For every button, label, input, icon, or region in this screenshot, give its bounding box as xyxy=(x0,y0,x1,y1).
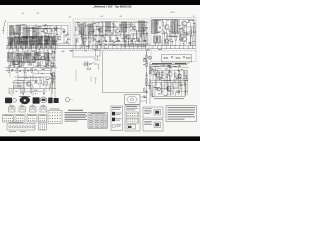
IF transformer T6 xyxy=(17,54,22,62)
resistor R36 xyxy=(180,37,182,41)
resistor R41 xyxy=(153,72,155,76)
transistor V17 xyxy=(178,74,182,78)
tuning capacitor pictorial xyxy=(40,97,47,103)
resistor R3 xyxy=(28,40,30,44)
svg-text:+U Z: +U Z xyxy=(119,16,122,18)
wire clutter mid board extra xyxy=(77,22,147,46)
resistor R9 xyxy=(21,62,23,66)
capacitor C16 xyxy=(149,67,151,68)
contact grid box xyxy=(48,109,62,124)
capacitor C19 xyxy=(145,91,147,92)
capacitor C7 xyxy=(48,60,50,61)
capacitor C6 xyxy=(30,64,32,65)
resistor R26 xyxy=(143,37,145,41)
transistor V14 xyxy=(164,39,168,44)
wire supply rail A xyxy=(6,45,196,47)
caption under connector strip xyxy=(9,130,26,133)
wire void bottom edge xyxy=(103,92,149,94)
resistor R22 xyxy=(123,38,125,42)
value labels FM box xyxy=(11,24,71,45)
pin assignment table X5 xyxy=(3,115,14,123)
AM coil pack L6 xyxy=(44,37,49,45)
wire left rail y77 xyxy=(14,76,56,78)
AM coil pack L3 xyxy=(9,37,14,45)
transistor V2 xyxy=(57,36,61,40)
capacitor C28 xyxy=(180,88,182,89)
resistor R13 xyxy=(76,27,78,31)
loudspeaker LS1 xyxy=(125,95,141,104)
resistor R29 xyxy=(149,70,151,74)
capacitor C32 xyxy=(35,81,37,82)
column parts x51 xyxy=(51,70,53,88)
connector socket X3 xyxy=(30,106,37,112)
capacitor C5 xyxy=(17,63,19,64)
IF transformer T12 xyxy=(139,21,145,32)
resistor R11 xyxy=(38,62,40,66)
resistor R45 xyxy=(184,72,186,76)
main board module outline xyxy=(73,19,149,50)
AM coil pack L5 xyxy=(37,37,42,45)
wire right column b xyxy=(149,62,151,104)
battery B1 xyxy=(85,62,89,67)
wire clutter AM band xyxy=(9,36,58,46)
switch S1 xyxy=(91,62,96,65)
wire drops to pictorial row xyxy=(12,88,55,98)
wire drop x76 xyxy=(75,70,77,81)
volume control box xyxy=(152,83,185,97)
symbol legend box xyxy=(111,106,123,131)
knob pictorial xyxy=(54,98,59,103)
transistor V13 xyxy=(182,36,187,41)
resistor R43 xyxy=(166,74,168,78)
resistor R25 xyxy=(137,37,139,41)
value labels left IF xyxy=(9,50,56,67)
pin assignment table X8 xyxy=(39,115,47,123)
resistor R17 xyxy=(87,68,91,70)
svg-text:+U Z: +U Z xyxy=(100,16,103,18)
notes text box xyxy=(166,106,197,122)
capacitor C4 xyxy=(65,35,67,36)
wire AF rail upper xyxy=(150,69,188,71)
transistor V12 xyxy=(182,21,187,26)
tone control box xyxy=(162,55,192,63)
caption under volume box xyxy=(154,97,184,100)
resistor R42 xyxy=(163,72,165,76)
resistor R44 xyxy=(175,73,177,77)
capacitor C33 xyxy=(42,84,44,85)
capacitor C23 xyxy=(171,57,173,58)
capacitor C3 xyxy=(51,30,53,31)
resistor R47 xyxy=(176,91,180,93)
diode D1 xyxy=(188,20,191,23)
trimmer pictorial xyxy=(13,99,17,103)
wire void left edge xyxy=(102,51,104,93)
bottom black margin band xyxy=(0,136,200,141)
potentiometer pictorial P3 xyxy=(19,96,31,104)
driver transformer Tr2 xyxy=(172,20,180,33)
wire clutter output module xyxy=(152,19,195,46)
resistor R31 xyxy=(149,85,151,89)
resistor R7 xyxy=(63,29,65,33)
IF transformer T9 xyxy=(88,24,93,34)
antenna rod xyxy=(2,20,5,34)
resistor R10 xyxy=(28,62,30,66)
capacitor C34 xyxy=(143,96,145,97)
wire main mid rail xyxy=(74,34,148,36)
choke L8 xyxy=(154,36,161,43)
wire battery leads xyxy=(82,64,99,70)
transistor V11 xyxy=(164,24,169,29)
IF transformer T5 xyxy=(8,53,13,62)
wire left IF verticals xyxy=(9,48,55,67)
FM tuner module outline xyxy=(8,23,71,46)
IF transformer T11 xyxy=(122,22,127,32)
capacitor C15 xyxy=(145,61,147,62)
value labels rail area xyxy=(62,46,162,51)
resistor R14 xyxy=(77,38,79,42)
wire connector arcs xyxy=(10,104,45,107)
transistor V10 xyxy=(132,26,136,30)
resistor R2 xyxy=(20,39,22,43)
capacitor C31 xyxy=(27,70,29,71)
wire mid branch xyxy=(73,51,95,60)
value labels right column xyxy=(143,59,153,98)
resistor R18 xyxy=(103,37,105,41)
IF transformer T7 xyxy=(26,54,31,62)
resistor R48 xyxy=(8,69,10,73)
capacitor C10 xyxy=(119,25,121,26)
wire clutter left IF extra xyxy=(9,51,55,68)
wire clutter AF lower extra xyxy=(153,67,188,96)
resistor R12 xyxy=(46,61,48,65)
FM IF transformer T1 xyxy=(23,27,30,38)
wire FM interior verticals xyxy=(11,24,68,44)
wire clutter FM box xyxy=(10,25,69,45)
resistor R52 xyxy=(40,80,42,84)
AM coil pack L7 xyxy=(51,37,56,45)
wire clutter AF lower xyxy=(151,64,189,96)
switch pictorial S4 xyxy=(48,98,52,104)
connector socket X2 xyxy=(19,106,26,112)
capacitor C29 xyxy=(11,70,13,71)
wire supply rail B xyxy=(6,47,196,49)
transistor V15 xyxy=(155,72,159,77)
capacitor C11 xyxy=(125,27,127,28)
potentiometer P2 xyxy=(166,86,171,91)
wire dashed rail C xyxy=(73,50,196,52)
electrolytic C35 xyxy=(149,56,152,59)
wire volume box leads xyxy=(155,83,182,97)
wire main top rail xyxy=(74,21,148,23)
voltage table xyxy=(88,112,108,128)
coil L2 xyxy=(17,25,21,35)
electrolytic C36 xyxy=(145,83,148,86)
capacitor C25 xyxy=(159,77,161,78)
coupling capacitor row xyxy=(98,40,146,41)
value labels mid board xyxy=(77,22,147,47)
AM band filter T4 xyxy=(30,36,36,45)
svg-text:+U Z: +U Z xyxy=(68,17,71,19)
resistor R24 xyxy=(131,40,133,44)
capacitor C14 xyxy=(96,50,101,56)
wire left mid rail xyxy=(9,88,56,90)
resistor R20 xyxy=(114,24,116,28)
pin box X10 xyxy=(39,123,47,130)
resistor R27 xyxy=(146,55,148,59)
resistor R15 xyxy=(92,38,94,42)
wire output top rail xyxy=(152,19,194,21)
value labels left lower xyxy=(12,69,56,94)
resistor R55 xyxy=(144,58,146,62)
wire output verticals xyxy=(155,20,194,46)
rail junction stubs right xyxy=(153,45,193,49)
resistor R28 xyxy=(146,63,148,67)
transistor V3 xyxy=(12,61,16,65)
resistor R5 xyxy=(48,36,52,38)
connector socket X1 xyxy=(9,106,16,112)
resistor R6 xyxy=(55,27,57,31)
resistor R32 xyxy=(162,22,164,26)
pin assignment table X7 xyxy=(27,115,37,123)
switch bank contact stubs xyxy=(8,44,55,49)
value labels output module xyxy=(156,20,196,44)
resistor R35 xyxy=(175,37,177,41)
capacitor C27 xyxy=(185,76,187,77)
resistor R40 xyxy=(187,57,191,59)
transistor V16 xyxy=(168,72,172,77)
resistor R56 xyxy=(144,88,146,92)
transistor V8 xyxy=(115,29,119,34)
resistor R16 xyxy=(97,26,99,30)
jack pictorial xyxy=(66,98,74,102)
wire third rail segment xyxy=(6,46,58,48)
resistor R51 xyxy=(31,69,33,73)
svg-text:+U Z: +U Z xyxy=(21,13,24,15)
resistor R53 xyxy=(46,82,48,86)
resistor R54 xyxy=(52,78,54,82)
wire left second rail xyxy=(5,69,50,71)
AF stage caption xyxy=(152,62,186,65)
resistor R39 xyxy=(176,57,180,59)
resistor R19 xyxy=(110,38,112,42)
resistor R23 xyxy=(131,23,133,27)
resistor R1 xyxy=(13,38,15,42)
AM band filter T3 xyxy=(22,36,28,45)
resistor R50 xyxy=(24,69,26,73)
wire main low rail xyxy=(92,43,150,45)
IF transformer T14 xyxy=(45,53,50,61)
AM coil pack L4 xyxy=(15,37,20,45)
wire left lower rail xyxy=(5,67,57,69)
switch pictorial S3 xyxy=(33,97,40,103)
resistor R49 xyxy=(16,69,18,73)
IF transformer T13 xyxy=(35,53,40,61)
capacitor C2 xyxy=(41,36,43,37)
switch bank series resistors xyxy=(11,46,52,48)
resistor R30 xyxy=(146,78,148,82)
capacitor C17 xyxy=(145,75,147,76)
component value text row xyxy=(151,64,187,66)
IF transformer T8 xyxy=(79,24,84,34)
ferrite antenna box xyxy=(14,81,24,89)
resistor R37 xyxy=(190,30,192,34)
wire AF rail lower xyxy=(150,79,188,81)
capacitor C21 xyxy=(180,28,182,29)
capacitor C18 xyxy=(149,82,151,83)
transistor V6 xyxy=(82,38,86,43)
wire clutter left lower xyxy=(9,69,55,94)
capacitor C20 xyxy=(159,27,161,28)
rail junction stubs mid xyxy=(76,45,146,50)
capacitor C26 xyxy=(176,78,178,79)
top black margin band xyxy=(0,0,200,5)
switch pictorial S2 xyxy=(5,98,12,104)
resistor R33 xyxy=(162,30,164,34)
capacitor C22 xyxy=(186,33,188,34)
pin assignment table X6 xyxy=(15,115,25,123)
capacitor C8 xyxy=(94,39,96,40)
node junction dots right column xyxy=(146,53,150,81)
resistor R4 xyxy=(38,40,40,44)
wire left lower verticals xyxy=(10,68,55,89)
connector socket X4 xyxy=(40,106,47,112)
wire clutter mid board xyxy=(76,21,148,48)
AF output module outline xyxy=(151,18,196,62)
resistor R34 xyxy=(170,36,172,40)
capacitor C9 xyxy=(111,33,113,34)
trim marks mid lower xyxy=(91,76,97,84)
transistor V7 xyxy=(98,28,102,33)
detail box lower xyxy=(143,120,163,132)
wire main bottom ties xyxy=(95,42,146,49)
coil L1 xyxy=(10,26,14,35)
wire clutter left IF xyxy=(10,49,56,67)
capacitor C13 xyxy=(145,28,147,29)
svg-text:„Weekend 1 201“ Typ 69011/013: „Weekend 1 201“ Typ 69011/013 xyxy=(93,6,132,9)
connector strip X9 xyxy=(7,122,35,130)
wire main right verticals xyxy=(103,22,147,46)
wire right column a xyxy=(146,50,148,104)
IF transformer T10 xyxy=(106,22,111,32)
wire arrow to dial xyxy=(22,93,24,95)
socket legend box xyxy=(125,105,140,131)
resistor R8 xyxy=(11,62,13,66)
capacitor C24 xyxy=(183,57,185,58)
transistor V5 xyxy=(41,56,45,60)
resistor R46 xyxy=(174,87,178,89)
output transformer Tr1 xyxy=(152,20,158,34)
value labels AF lower xyxy=(152,65,183,97)
transistor V18 xyxy=(26,81,31,86)
potentiometer P1 xyxy=(157,87,161,91)
wire speaker leads xyxy=(140,97,147,101)
wire FM interior horizontals xyxy=(9,26,68,44)
wire mid verticals xyxy=(75,22,99,46)
detail box upper xyxy=(143,107,163,118)
capacitor C30 xyxy=(19,71,21,72)
transistor V9 xyxy=(125,35,129,40)
resistor R38 xyxy=(164,57,168,59)
wire junction dots xyxy=(7,20,190,96)
wire drop x96 xyxy=(95,48,100,60)
capacitor C12 xyxy=(140,36,142,37)
transistor V1 xyxy=(43,29,47,34)
resistor R21 xyxy=(116,38,118,42)
wire AF verticals xyxy=(153,70,187,80)
parts list text block xyxy=(65,110,88,122)
FM IF transformer T2 xyxy=(33,27,40,38)
transistor V4 xyxy=(31,58,35,63)
transistor V19 xyxy=(51,73,55,77)
svg-text:+U Z: +U Z xyxy=(36,13,39,15)
capacitor C1 xyxy=(14,33,16,34)
